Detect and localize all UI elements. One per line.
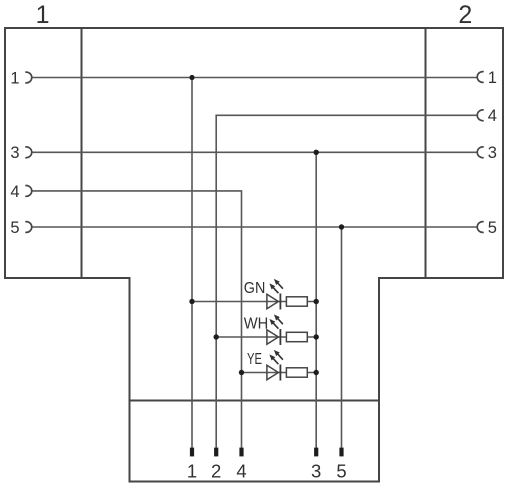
svg-text:YE: YE bbox=[247, 351, 262, 368]
svg-text:4: 4 bbox=[488, 107, 497, 125]
svg-text:WH: WH bbox=[244, 315, 268, 332]
svg-text:3: 3 bbox=[10, 144, 19, 162]
svg-text:3: 3 bbox=[488, 144, 497, 162]
svg-text:5: 5 bbox=[488, 219, 497, 237]
svg-text:5: 5 bbox=[336, 461, 346, 482]
svg-text:GN: GN bbox=[244, 280, 265, 297]
svg-text:1: 1 bbox=[488, 69, 497, 87]
svg-text:2: 2 bbox=[211, 461, 221, 482]
svg-text:5: 5 bbox=[10, 219, 19, 237]
svg-text:1: 1 bbox=[10, 69, 19, 87]
svg-text:3: 3 bbox=[311, 461, 321, 482]
svg-text:1: 1 bbox=[36, 1, 50, 29]
svg-text:1: 1 bbox=[187, 461, 197, 482]
svg-text:4: 4 bbox=[236, 461, 246, 482]
svg-text:4: 4 bbox=[10, 183, 19, 201]
svg-text:2: 2 bbox=[458, 1, 472, 29]
